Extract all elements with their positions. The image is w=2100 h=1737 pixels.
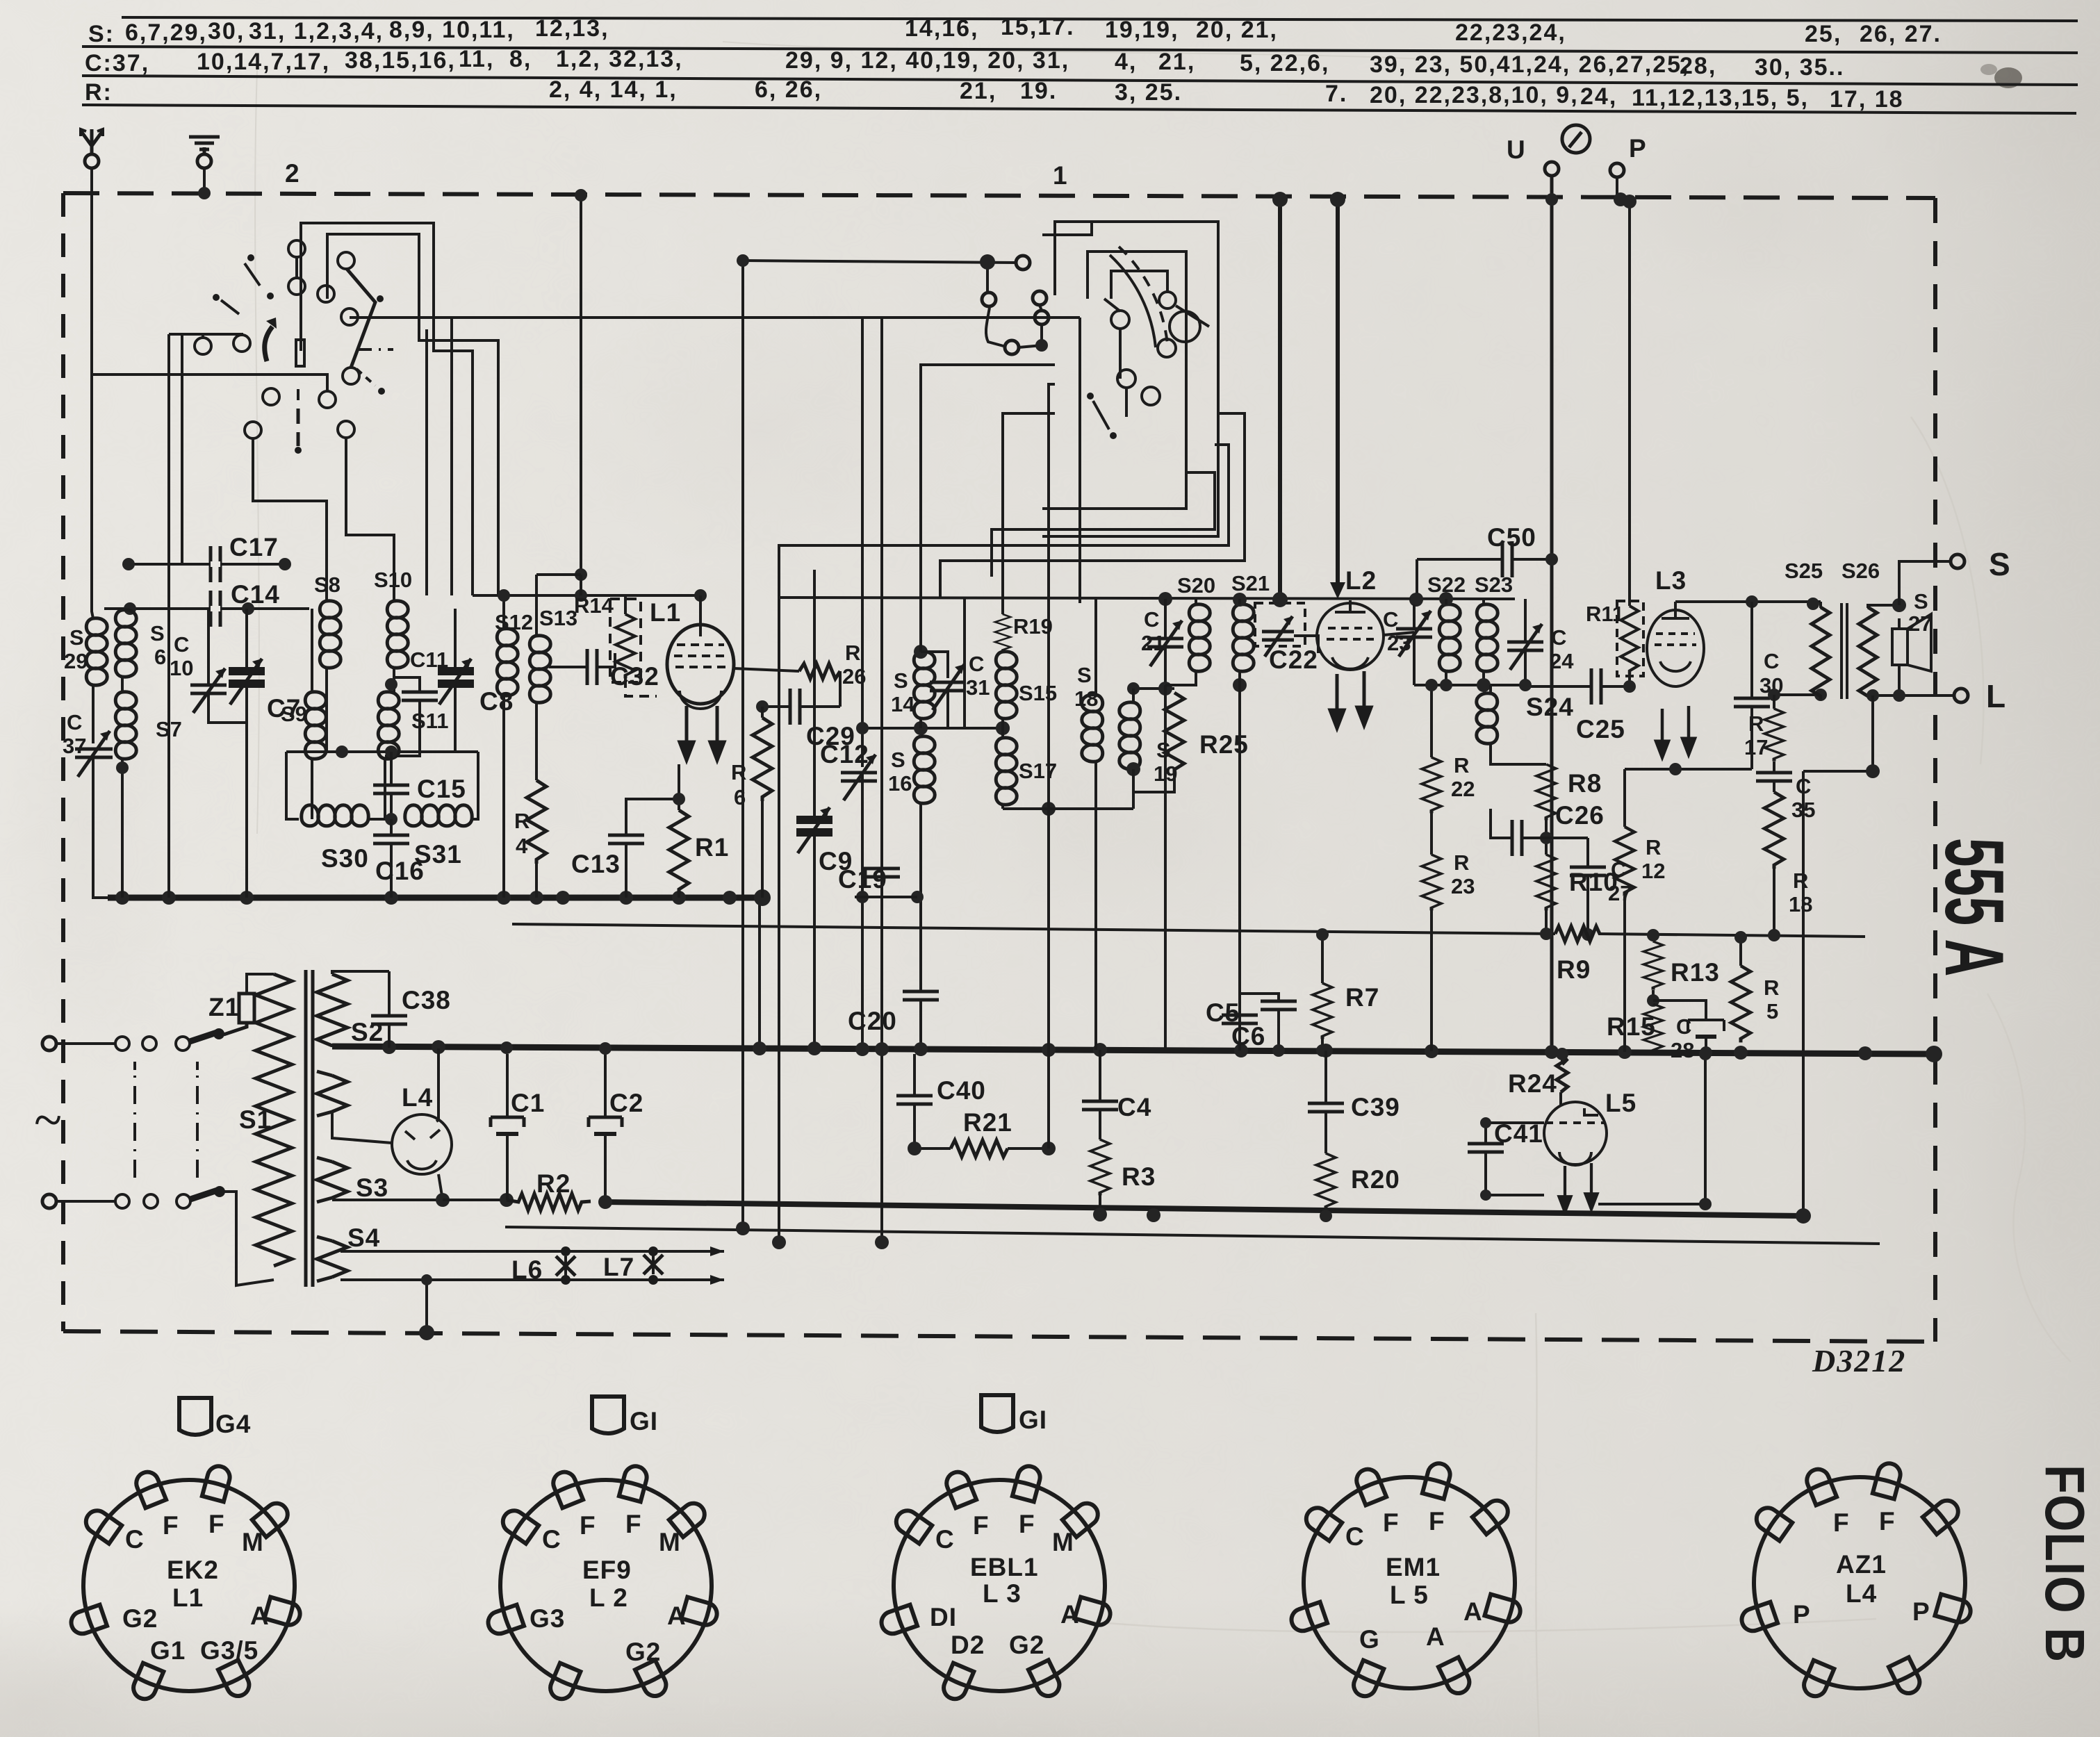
svg-text:2: 2 xyxy=(285,159,300,188)
border left xyxy=(61,193,65,1331)
coil S18 xyxy=(1094,599,1097,695)
svg-text:S: S xyxy=(1077,663,1092,687)
svg-text:R: R xyxy=(1764,975,1779,1000)
svg-text:M: M xyxy=(1052,1528,1074,1556)
svg-text:24: 24 xyxy=(1550,649,1574,673)
svg-text:21: 21 xyxy=(1141,631,1165,655)
rotor circle xyxy=(1170,311,1200,342)
mains switch xyxy=(56,1028,225,1208)
resistor R6 xyxy=(761,707,764,898)
svg-text:4: 4 xyxy=(516,834,528,858)
junction line y1164 xyxy=(1003,807,1133,810)
svg-text:11,12,13,15, 5,: 11,12,13,15, 5, xyxy=(1632,85,1809,111)
resistor R25 xyxy=(1165,693,1184,773)
svg-text:23: 23 xyxy=(1451,874,1475,898)
slot xyxy=(296,340,304,366)
switch frame outer xyxy=(301,223,434,351)
resistor R19 xyxy=(1001,599,1004,614)
coil S8 xyxy=(320,601,341,668)
svg-text:24,: 24, xyxy=(1580,83,1617,110)
svg-text:EM1: EM1 xyxy=(1386,1553,1441,1581)
socket EM1 L5 xyxy=(1288,1461,1523,1699)
svg-text:S: S xyxy=(1914,589,1928,614)
sub rail y1082 xyxy=(286,746,478,819)
svg-text:S11: S11 xyxy=(411,709,448,733)
svg-text:R25: R25 xyxy=(1199,730,1249,759)
svg-text:M: M xyxy=(242,1528,264,1556)
svg-text:C13: C13 xyxy=(571,850,621,878)
svg-text:14,16,: 14,16, xyxy=(905,15,979,42)
wire: long vertical x1093 xyxy=(758,898,761,1049)
dash-dot marks xyxy=(356,348,393,351)
capacitor C35 xyxy=(1756,762,1792,792)
wire: long vertical x1241 xyxy=(861,318,864,767)
resistor R1 xyxy=(678,764,680,898)
svg-text:C: C xyxy=(1383,607,1398,632)
wire: long vertical x1172 xyxy=(813,570,816,820)
socket EBL1 L3 xyxy=(878,1464,1113,1702)
svg-text:R2: R2 xyxy=(536,1169,571,1198)
coil S24 xyxy=(1477,693,1498,743)
svg-text:22,23,24,: 22,23,24, xyxy=(1455,19,1566,46)
svg-text:S20: S20 xyxy=(1177,573,1215,598)
cathode arrows L1 xyxy=(680,706,694,760)
border top xyxy=(63,193,1935,198)
AC symbol xyxy=(35,1111,60,1129)
resistor R10 xyxy=(1540,820,1552,940)
coil S30 horizontal xyxy=(302,805,368,826)
wire: long vertical x1121 xyxy=(778,595,780,1242)
svg-text:30, 35..: 30, 35.. xyxy=(1755,54,1844,81)
coil S31 horizontal xyxy=(405,805,472,826)
resistor R26 xyxy=(734,664,840,707)
heavy bus: ground bus left y1292 xyxy=(108,895,762,901)
svg-text:L4: L4 xyxy=(1846,1579,1877,1608)
svg-text:S26: S26 xyxy=(1841,559,1880,583)
svg-text:U: U xyxy=(1507,135,1526,164)
rail with C14 xyxy=(104,607,309,610)
variable capacitor C24 xyxy=(1507,599,1543,685)
svg-text:G: G xyxy=(1359,1625,1380,1654)
svg-text:S4: S4 xyxy=(347,1224,380,1252)
wire: vertical drop x836 from top border xyxy=(580,195,582,575)
capacitor C32 xyxy=(549,649,615,685)
capacitor C26 xyxy=(1491,809,1546,856)
svg-text:A: A xyxy=(1060,1600,1080,1629)
trimmer C31 xyxy=(921,652,966,728)
trimmer C22 with dashed box xyxy=(1255,603,1318,657)
svg-text:1,2, 32,13,: 1,2, 32,13, xyxy=(556,46,683,72)
trimmer C21 xyxy=(1147,592,1183,695)
svg-text:F: F xyxy=(1383,1508,1400,1537)
coil S22 xyxy=(1439,604,1460,671)
V wiper xyxy=(347,269,375,368)
row R labels xyxy=(85,76,1904,113)
svg-text:11,: 11, xyxy=(459,46,494,72)
coil S29 xyxy=(86,618,107,685)
contact terminal at right of y375 wire xyxy=(986,262,989,291)
svg-text:35: 35 xyxy=(1791,798,1815,822)
svg-text:20, 22,23,8,10, 9,: 20, 22,23,8,10, 9, xyxy=(1370,82,1579,108)
svg-text:C: C xyxy=(542,1525,561,1554)
svg-text:DI: DI xyxy=(930,1603,957,1631)
switch contacts xyxy=(1111,311,1129,329)
svg-text:3, 25.: 3, 25. xyxy=(1115,79,1182,106)
svg-text:26: 26 xyxy=(842,664,866,689)
svg-text:4,: 4, xyxy=(1115,49,1137,75)
socket EK2 L1 xyxy=(68,1464,302,1702)
svg-text:C22: C22 xyxy=(1269,645,1318,674)
border bottom xyxy=(63,1331,1935,1342)
svg-text:M: M xyxy=(659,1528,681,1556)
svg-text:EBL1: EBL1 xyxy=(970,1553,1039,1581)
svg-text:L4: L4 xyxy=(402,1083,433,1112)
svg-text:18: 18 xyxy=(1074,686,1098,711)
wire: long vertical x1554 xyxy=(1078,318,1081,603)
svg-text:C2: C2 xyxy=(609,1089,643,1117)
wire L2 plate to C23 xyxy=(1384,632,1414,635)
svg-text:S17: S17 xyxy=(1019,759,1057,783)
rail with C17 xyxy=(129,563,285,566)
svg-text:L1: L1 xyxy=(172,1583,204,1612)
svg-text:15,17.: 15,17. xyxy=(1001,14,1075,40)
svg-text:C26: C26 xyxy=(1555,801,1605,830)
capacitor C11 xyxy=(385,677,438,756)
capacitor C5 xyxy=(1222,1015,1258,1051)
svg-text:S21: S21 xyxy=(1231,571,1270,595)
L terminal xyxy=(1954,689,1968,702)
svg-text:F: F xyxy=(973,1511,990,1540)
wires out of switch right side xyxy=(940,413,1245,597)
lamp winding xyxy=(317,1071,347,1116)
socket EF9 L2 xyxy=(485,1464,719,1702)
svg-text:F: F xyxy=(580,1511,596,1540)
svg-text:R7: R7 xyxy=(1345,983,1379,1012)
svg-text:R15: R15 xyxy=(1607,1012,1656,1041)
coil S6 xyxy=(115,610,136,677)
capacitor C19 xyxy=(855,868,917,897)
svg-text:F: F xyxy=(163,1511,179,1540)
heavy bus: chassis bus y1507 xyxy=(332,1046,1934,1054)
svg-text:S9: S9 xyxy=(281,702,307,726)
svg-text:29, 9, 12, 40,19, 20, 31,: 29, 9, 12, 40,19, 20, 31, xyxy=(785,47,1069,74)
svg-text:C4: C4 xyxy=(1117,1093,1151,1121)
svg-text:S25: S25 xyxy=(1785,559,1823,583)
rotor arrow arc xyxy=(265,327,272,361)
wires: verticals to coil bank xyxy=(425,329,428,595)
svg-text:S: S xyxy=(894,668,908,693)
svg-text:S10: S10 xyxy=(374,568,412,592)
svg-text:L 3: L 3 xyxy=(983,1579,1022,1608)
resistor R8 xyxy=(1536,764,1556,820)
row C labels xyxy=(85,46,1844,81)
svg-text:R: R xyxy=(1748,711,1764,736)
svg-text:R8: R8 xyxy=(1568,769,1602,798)
svg-text:L7: L7 xyxy=(603,1253,634,1281)
svg-text:37: 37 xyxy=(63,734,86,758)
contact circles xyxy=(288,240,305,257)
svg-text:S8: S8 xyxy=(314,573,341,597)
svg-text:28,: 28, xyxy=(1680,53,1716,79)
capacitor C16 xyxy=(373,819,409,898)
svg-text:G4: G4 xyxy=(215,1410,251,1438)
coil S16 xyxy=(914,736,935,803)
svg-text:2, 4, 14, 1,: 2, 4, 14, 1, xyxy=(549,76,678,103)
coil S14 xyxy=(914,652,935,718)
svg-text:C1: C1 xyxy=(511,1089,545,1117)
svg-text:C: C xyxy=(1551,625,1566,650)
AC input terminals xyxy=(42,1037,56,1051)
capacitor C15 xyxy=(373,752,409,825)
resistor R12 xyxy=(1615,827,1634,896)
resistor R4 xyxy=(527,780,546,864)
wire: U supply vertical xyxy=(1550,176,1554,1051)
svg-text:22: 22 xyxy=(1451,777,1475,801)
svg-text:S2: S2 xyxy=(351,1018,384,1046)
svg-text:R: R xyxy=(1454,850,1469,875)
svg-text:C12: C12 xyxy=(820,740,869,768)
svg-text:Z1: Z1 xyxy=(208,993,240,1021)
svg-text:R3: R3 xyxy=(1122,1162,1156,1191)
resistor R9 xyxy=(1555,926,1600,941)
capacitor C29 xyxy=(756,689,840,725)
svg-text:L3: L3 xyxy=(1655,566,1687,595)
svg-text:C38: C38 xyxy=(402,986,451,1014)
drum sector arc xyxy=(1110,255,1156,347)
svg-text:L 5: L 5 xyxy=(1390,1581,1429,1609)
svg-text:29: 29 xyxy=(64,649,88,673)
svg-text:10,14,7,17,: 10,14,7,17, xyxy=(197,49,330,75)
svg-text:A: A xyxy=(1463,1597,1483,1626)
resistor R13 xyxy=(1647,929,1659,941)
capacitor C25 xyxy=(1519,668,1630,705)
svg-text:R1: R1 xyxy=(695,833,729,862)
resistors R22 R23 xyxy=(1425,679,1438,1051)
drum sector dashed arc xyxy=(1119,247,1167,344)
svg-text:F: F xyxy=(1879,1507,1896,1536)
coil S11 xyxy=(378,692,399,759)
svg-text:R24: R24 xyxy=(1508,1069,1557,1098)
svg-text:R: R xyxy=(514,809,530,833)
padder capacitor C7 xyxy=(229,659,265,705)
node: ground joins border xyxy=(198,187,211,199)
cathode arrows L2 xyxy=(1330,674,1344,728)
wire: antenna branch to coil bank xyxy=(90,374,93,611)
svg-text:F: F xyxy=(1833,1508,1850,1537)
variable capacitor C23 xyxy=(1396,599,1432,685)
sub rail y1048 xyxy=(862,727,1003,730)
resistor R5 xyxy=(1734,931,1747,966)
coil S12 xyxy=(497,629,518,695)
svg-text:R: R xyxy=(1454,753,1469,777)
svg-text:G1: G1 xyxy=(150,1636,186,1665)
table line 3 xyxy=(82,76,2078,85)
svg-text:S24: S24 xyxy=(1526,693,1574,721)
padder capacitor C8 xyxy=(438,659,474,705)
svg-text:R: R xyxy=(1793,868,1808,893)
svg-text:C20: C20 xyxy=(848,1007,897,1035)
svg-text:C: C xyxy=(1676,1014,1691,1039)
svg-text:P: P xyxy=(1793,1600,1811,1629)
variable capacitor C37 xyxy=(75,731,113,777)
svg-text:C17: C17 xyxy=(229,533,279,561)
svg-text:6: 6 xyxy=(154,645,166,669)
svg-text:8,9, 10,11,: 8,9, 10,11, xyxy=(389,17,515,43)
svg-text:C: C xyxy=(67,710,82,734)
svg-text:38,15,16,: 38,15,16, xyxy=(345,47,456,74)
svg-text:A: A xyxy=(667,1602,687,1630)
svg-text:555 A: 555 A xyxy=(1928,838,2021,977)
cathode line to R12 xyxy=(1625,763,1752,827)
svg-text:C6: C6 xyxy=(1231,1022,1265,1051)
table line 2 xyxy=(82,47,2078,53)
resistor R21 xyxy=(908,1054,1056,1157)
resistor R7 xyxy=(1316,928,1329,1057)
staircase wires from drum switch xyxy=(921,262,1055,599)
svg-text:R21: R21 xyxy=(963,1108,1012,1137)
capacitor C50 xyxy=(1411,541,1558,605)
svg-text:F: F xyxy=(625,1510,642,1538)
svg-text:R14: R14 xyxy=(574,593,614,618)
capacitor C30 xyxy=(1734,602,1770,769)
wire: long vertical x1269 xyxy=(880,318,883,1242)
variable capacitor C10 xyxy=(190,668,227,713)
svg-text:S:: S: xyxy=(88,21,115,47)
inner frame detail of drum switch xyxy=(1111,271,1209,327)
svg-text:18: 18 xyxy=(1789,892,1812,916)
svg-text:10: 10 xyxy=(170,656,193,680)
svg-text:R: R xyxy=(845,641,860,665)
coil S17 xyxy=(996,738,1017,805)
svg-text:A: A xyxy=(1426,1622,1445,1651)
svg-text:R: R xyxy=(731,760,746,784)
capacitor C13 xyxy=(608,793,685,898)
capacitor C17 xyxy=(211,546,220,582)
svg-text:EK2: EK2 xyxy=(167,1556,219,1584)
coil S19 xyxy=(1127,682,1174,702)
svg-text:28: 28 xyxy=(1671,1038,1694,1062)
vertical x1509 full xyxy=(1047,598,1050,1149)
border right xyxy=(1933,198,1937,1342)
svg-text:C: C xyxy=(969,652,984,676)
svg-text:FOLIO B: FOLIO B xyxy=(2034,1465,2096,1663)
svg-text:30,: 30, xyxy=(208,18,245,44)
svg-text:C14: C14 xyxy=(231,580,280,609)
svg-text:8,: 8, xyxy=(509,46,532,72)
variable capacitor C12 xyxy=(841,755,877,800)
svg-text:R9: R9 xyxy=(1557,955,1591,984)
svg-text:GI: GI xyxy=(1019,1406,1047,1434)
heater lines with dial lamps L6 L7 xyxy=(341,1246,724,1340)
capacitor C39 xyxy=(1308,1051,1344,1153)
grid cap box G4 xyxy=(179,1398,211,1435)
resistor R17 xyxy=(1768,689,1827,709)
svg-text:26, 27.: 26, 27. xyxy=(1860,21,1942,47)
svg-text:L1: L1 xyxy=(650,598,681,627)
wire: bottom thin rail y1765-1790 xyxy=(505,1227,1880,1244)
capacitor C6 xyxy=(1240,994,1297,1057)
coil S7 xyxy=(115,692,136,759)
switch frame inner xyxy=(1042,252,1186,509)
svg-text:12,13,: 12,13, xyxy=(535,15,609,42)
svg-text:S: S xyxy=(150,621,165,645)
row S labels xyxy=(88,14,1942,47)
svg-text:G3/5: G3/5 xyxy=(200,1636,259,1665)
svg-text:C16: C16 xyxy=(375,857,425,885)
svg-text:G2: G2 xyxy=(122,1604,158,1633)
wire: long vertical x1353 xyxy=(963,597,966,728)
svg-text:C32: C32 xyxy=(610,662,659,691)
svg-text:S: S xyxy=(1989,546,2011,582)
movement dash mark xyxy=(1093,401,1109,429)
phono symbol xyxy=(1562,125,1590,153)
wire: long vertical x1069 xyxy=(741,261,744,1228)
svg-text:C: C xyxy=(1144,607,1159,632)
svg-text:R13: R13 xyxy=(1671,958,1720,987)
wire: bus3 corner up at x2595 xyxy=(1802,771,1805,1216)
switch frame outer xyxy=(1042,222,1218,536)
svg-text:31: 31 xyxy=(966,675,990,700)
resistor R3 xyxy=(1090,1139,1110,1195)
svg-text:21,: 21, xyxy=(960,78,996,104)
svg-text:6, 26,: 6, 26, xyxy=(755,76,822,103)
svg-text:39, 23, 50,41,24, 26,27,25,: 39, 23, 50,41,24, 26,27,25, xyxy=(1370,51,1689,78)
svg-text:C: C xyxy=(1345,1522,1365,1551)
drum contact pair xyxy=(1033,291,1047,305)
svg-text:F: F xyxy=(1019,1510,1035,1538)
svg-text:12: 12 xyxy=(1641,859,1665,883)
L5 cathode return xyxy=(1598,1048,1712,1210)
svg-text:6,7,29,: 6,7,29, xyxy=(125,19,207,46)
svg-text:C19: C19 xyxy=(838,865,887,894)
coil S21 xyxy=(1233,604,1254,671)
svg-text:C25: C25 xyxy=(1576,715,1625,743)
svg-text:20, 21,: 20, 21, xyxy=(1196,17,1278,43)
svg-text:D2: D2 xyxy=(951,1631,985,1659)
resistor R15 xyxy=(1647,990,1659,1007)
svg-text:7.: 7. xyxy=(1325,81,1347,107)
svg-text:23: 23 xyxy=(1387,631,1411,655)
svg-text:R20: R20 xyxy=(1351,1165,1400,1194)
svg-text:D3212: D3212 xyxy=(1812,1343,1906,1378)
svg-text:L5: L5 xyxy=(1605,1089,1636,1117)
svg-text:L 2: L 2 xyxy=(589,1583,628,1612)
table line 4 xyxy=(82,105,2076,113)
capacitor C28 electrolytic xyxy=(1653,1001,1724,1059)
svg-text:S13: S13 xyxy=(539,606,577,630)
wire: long horizontal from left switch to middle switch xyxy=(350,316,1080,319)
transformer core xyxy=(306,970,313,1287)
svg-text:L6: L6 xyxy=(511,1256,543,1284)
svg-text:S: S xyxy=(891,748,905,772)
svg-text:5: 5 xyxy=(1766,999,1778,1023)
coil S20 xyxy=(1189,604,1210,671)
plate rail to transformer xyxy=(1675,595,1821,610)
wires from cluster xyxy=(169,334,242,336)
svg-text:GI: GI xyxy=(630,1407,658,1435)
coil S13 xyxy=(530,636,550,702)
wire: antenna lead-in down xyxy=(92,168,327,390)
svg-text:G2: G2 xyxy=(1009,1631,1044,1659)
heavy bus: lower bus y1730-1750 xyxy=(605,1202,1803,1216)
S terminal xyxy=(1951,554,1964,568)
anode rail y857 xyxy=(473,594,700,597)
svg-text:C: C xyxy=(174,632,189,657)
svg-text:C50: C50 xyxy=(1487,523,1536,552)
wire: P line jog at border xyxy=(1617,176,1630,602)
svg-text:S3: S3 xyxy=(356,1174,388,1202)
svg-text:R19: R19 xyxy=(1013,614,1053,639)
